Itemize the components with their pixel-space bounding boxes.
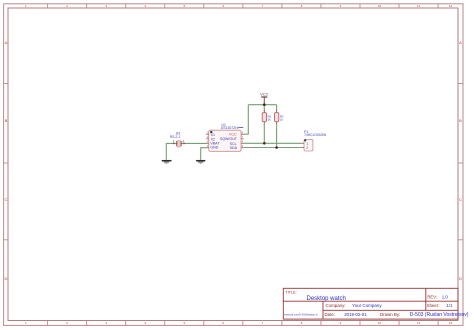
- svg-text:10: 10: [378, 4, 382, 8]
- VCC net flag: [260, 91, 269, 104]
- svg-text:SDA: SDA: [230, 146, 238, 150]
- svg-text:Sheet:: Sheet:: [427, 303, 439, 308]
- svg-text:1.0: 1.0: [442, 294, 449, 299]
- svg-text:C: C: [459, 197, 462, 202]
- svg-text:GND: GND: [210, 145, 218, 149]
- svg-text:Date:: Date:: [325, 312, 336, 317]
- svg-text:1/1: 1/1: [446, 303, 453, 308]
- svg-text:easyeda.com/D-503/desktop-w: easyeda.com/D-503/desktop-w: [284, 314, 318, 317]
- svg-text:C: C: [4, 197, 7, 202]
- wire: SCL line IC to P1: [244, 142, 302, 144]
- wire: SDA line IC to P1: [244, 147, 302, 149]
- svg-text:Your Company: Your Company: [352, 303, 382, 308]
- svg-text:VCC: VCC: [229, 133, 237, 137]
- label DS1307ZN+ tail stroke: [239, 127, 244, 129]
- wire: VCC rail horizontal: [248, 104, 276, 106]
- resistor R1: [262, 110, 266, 125]
- junction SCL/R1: [263, 142, 266, 145]
- resistor R2: [275, 110, 279, 125]
- svg-text:11: 11: [417, 321, 420, 325]
- wire: IC GND pin to ground: [201, 148, 207, 160]
- title block row line 1: [283, 300, 458, 302]
- title block outer: [283, 288, 458, 319]
- svg-text:2: 2: [306, 146, 308, 150]
- IC U1 (DS1307ZN+) body: [209, 130, 241, 151]
- U1 right pin numbers: [242, 132, 244, 148]
- svg-text:1k: 1k: [280, 118, 284, 122]
- svg-text:10: 10: [378, 321, 382, 325]
- wire: R2 top lead: [276, 105, 278, 111]
- wire: R1 bottom to SCL line: [263, 124, 265, 143]
- wire: crystal net from left ground corner to IC VBAT row: [166, 143, 206, 160]
- wire: R2 bottom to SDA line: [276, 124, 278, 148]
- svg-text:SQW/OUT: SQW/OUT: [220, 137, 238, 141]
- svg-text:1k: 1k: [268, 118, 272, 122]
- wire: VCC rail down to IC VCC pin: [244, 105, 249, 135]
- wire: R1 top lead: [263, 105, 265, 111]
- svg-text:VCC: VCC: [260, 91, 269, 96]
- svg-text:D-503 (Ruslan Vostretsov): D-503 (Ruslan Vostretsov): [410, 312, 469, 318]
- crystal B1: [173, 141, 185, 147]
- svg-text:74HC1G04GW: 74HC1G04GW: [304, 133, 327, 137]
- svg-text:B: B: [459, 118, 462, 123]
- ground (under IC): [196, 161, 205, 164]
- svg-text:2019-02-01: 2019-02-01: [344, 312, 367, 317]
- svg-text:RS-2-1: RS-2-1: [170, 135, 180, 139]
- svg-text:DS1307ZN+: DS1307ZN+: [221, 126, 240, 130]
- svg-text:Drawn By:: Drawn By:: [380, 312, 400, 317]
- junction SDA/R2: [275, 146, 278, 149]
- connector P1 body: [304, 139, 313, 151]
- title block rev/sheet divider: [425, 288, 427, 310]
- U1 left pin numbers: [207, 132, 209, 148]
- svg-text:D: D: [4, 276, 7, 281]
- title block row line 2: [323, 309, 458, 311]
- svg-text:Desktop watch: Desktop watch: [307, 296, 346, 302]
- ground (left of crystal): [162, 161, 172, 164]
- svg-text:TITLE:: TITLE:: [285, 291, 296, 295]
- svg-text:A: A: [459, 40, 462, 45]
- U1 left pin stubs: [206, 134, 209, 147]
- svg-text:D: D: [459, 276, 462, 281]
- svg-text:Company:: Company:: [326, 303, 346, 308]
- svg-text:A: A: [5, 40, 8, 45]
- U1 right pin stubs: [241, 134, 244, 147]
- svg-text:B: B: [5, 118, 8, 123]
- junction VCC rail: [263, 103, 266, 106]
- svg-text:REV:: REV:: [427, 294, 437, 299]
- svg-text:12: 12: [449, 4, 453, 8]
- svg-text:12: 12: [449, 321, 453, 325]
- svg-text:11: 11: [417, 4, 420, 8]
- title block left cell divider: [322, 301, 324, 319]
- P1 pin stubs: [302, 143, 304, 147]
